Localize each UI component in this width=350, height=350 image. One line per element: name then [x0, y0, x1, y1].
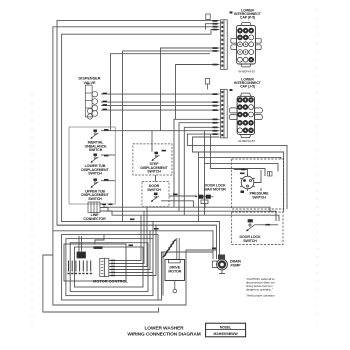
svg-text:PUMP: PUMP	[231, 263, 242, 267]
svg-text:WAX MOTOR: WAX MOTOR	[204, 187, 226, 191]
svg-text:SWITCH: SWITCH	[243, 239, 257, 243]
svg-text:4X-MEPX4-5X: 4X-MEPX4-5X	[238, 69, 255, 73]
svg-text:LOWER WASHER: LOWER WASHER	[144, 326, 184, 332]
svg-text:CAP (P-5): CAP (P-5)	[240, 16, 255, 20]
svg-text:MODEL: MODEL	[220, 325, 232, 329]
svg-text:CAP (J-5): CAP (J-5)	[240, 85, 255, 89]
svg-text:"Verify proper operation: "Verify proper operation	[246, 294, 275, 298]
svg-text:WIRING CONNECTION DIAGRAM: WIRING CONNECTION DIAGRAM	[127, 332, 200, 338]
svg-text:MOTOR: MOTOR	[168, 270, 181, 274]
svg-text:SWITCH: SWITCH	[89, 148, 103, 152]
svg-text:SWITCH: SWITCH	[88, 197, 102, 201]
svg-text:SWITCH: SWITCH	[147, 170, 161, 174]
svg-text:SWITCH: SWITCH	[147, 188, 161, 192]
svg-text:SWITCH: SWITCH	[252, 195, 266, 199]
svg-text:SWITCH: SWITCH	[88, 172, 102, 176]
svg-text:VALVE: VALVE	[83, 81, 96, 85]
svg-text:dangerous operation.": dangerous operation."	[246, 288, 273, 292]
svg-text:DISPENSER: DISPENSER	[79, 77, 101, 81]
svg-text:MAH5500BWW: MAH5500BWW	[214, 332, 239, 336]
svg-text:CONNECTOR: CONNECTOR	[83, 217, 106, 221]
svg-text:4X-MEPX4-5X: 4X-MEPX4-5X	[238, 139, 255, 143]
svg-text:MOTOR CONTROL: MOTOR CONTROL	[93, 278, 128, 283]
